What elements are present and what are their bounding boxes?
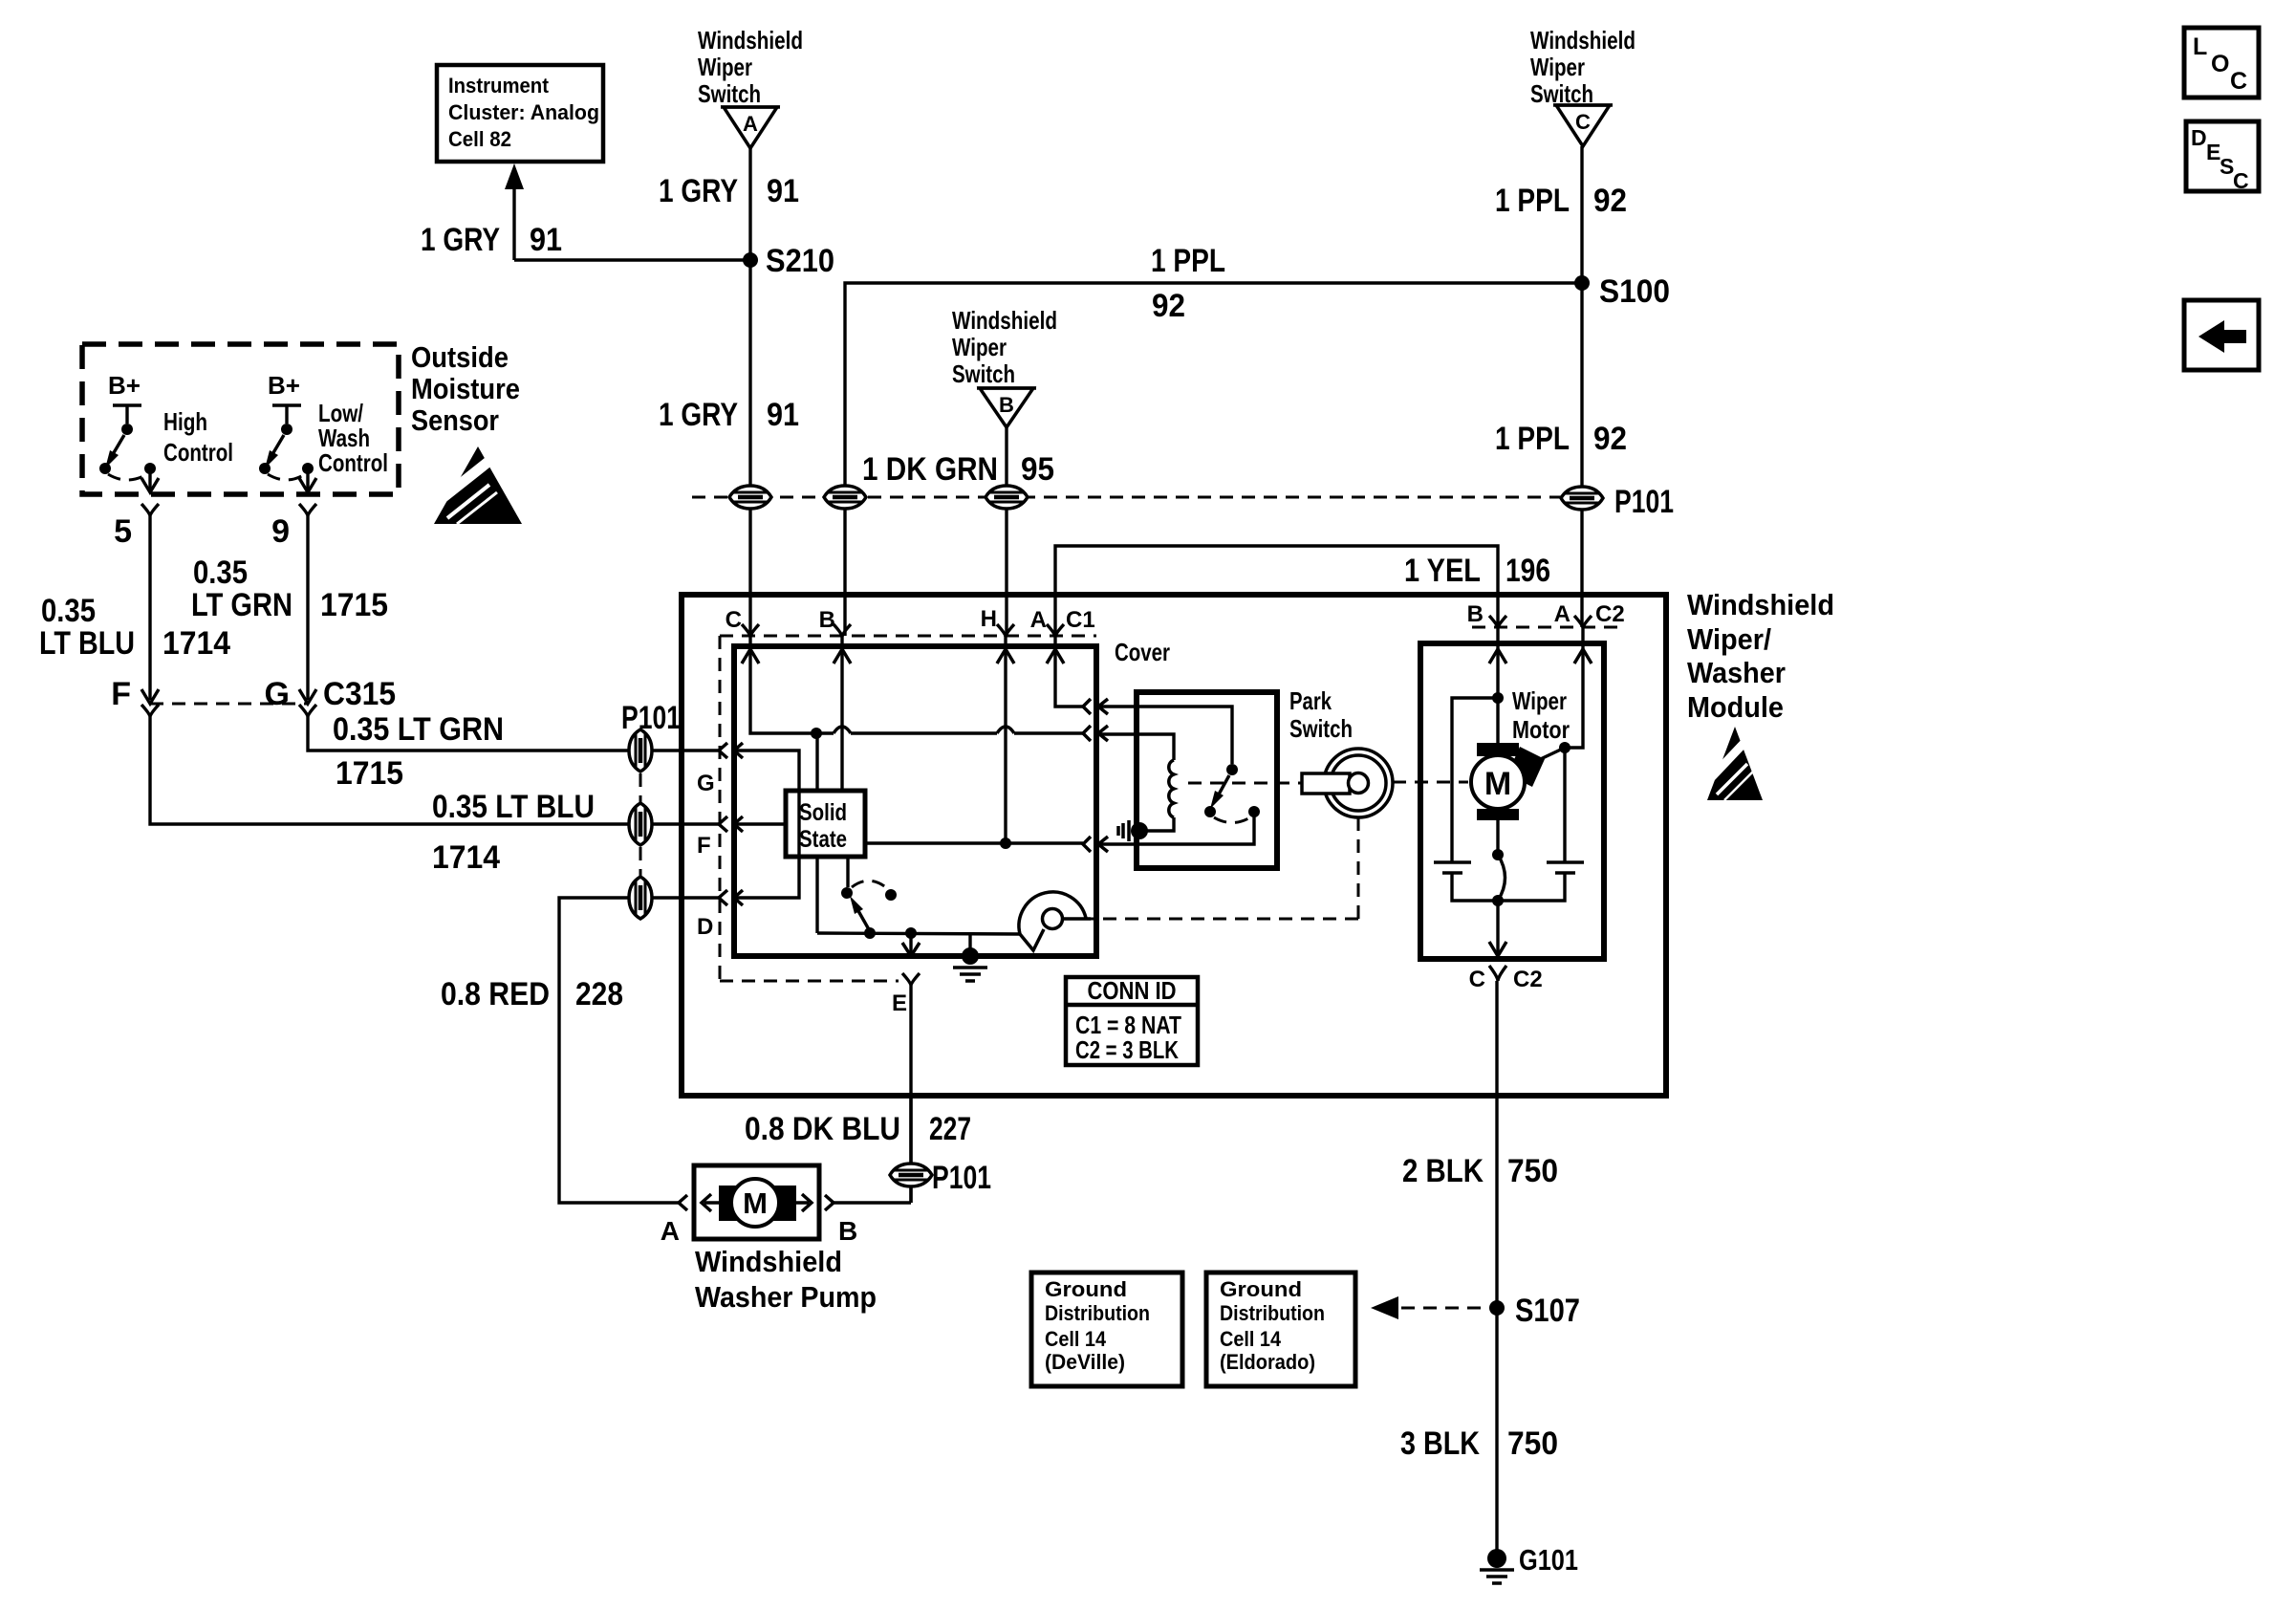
svg-text:B+: B+: [268, 371, 300, 400]
svg-text:LT GRN: LT GRN: [191, 587, 292, 623]
ground distribution cell 14 Eldorado box: [1206, 1273, 1355, 1386]
C2 terminal B: [1467, 601, 1506, 628]
inline connector P101 on wire B leg: [824, 486, 866, 509]
svg-text:C1: C1: [1066, 607, 1095, 633]
svg-text:Sensor: Sensor: [411, 403, 499, 437]
windshield wiper/washer module label: [1687, 588, 1834, 724]
svg-text:S107: S107: [1515, 1293, 1580, 1329]
dashed branch to ground distribution: [1371, 1296, 1484, 1319]
motor internal park contact arc: [1492, 820, 1505, 906]
svg-text:750: 750: [1507, 1153, 1558, 1189]
svg-text:1 GRY: 1 GRY: [659, 397, 738, 433]
svg-text:0.35 LT GRN: 0.35 LT GRN: [333, 711, 504, 748]
splice S210: [743, 243, 834, 279]
cover wire to relay coil: [1098, 734, 1174, 760]
motor armature wire B: [1492, 669, 1504, 743]
svg-text:Windshield: Windshield: [1530, 26, 1635, 54]
svg-text:F: F: [111, 676, 131, 712]
wire 1 GRY 91 S210 down to P101 and module terminal C: [659, 260, 799, 636]
svg-text:O: O: [2211, 51, 2229, 77]
card right edge terminal y767: [1083, 726, 1108, 741]
instrument cluster box: [437, 65, 603, 162]
windshield wiper/washer module box: [682, 595, 1666, 1096]
C1 terminal C: [726, 607, 759, 637]
svg-text:G: G: [265, 676, 290, 712]
motor right capacitor branch A: [1498, 669, 1584, 901]
svg-text:Ground: Ground: [1045, 1277, 1127, 1301]
svg-text:1 PPL: 1 PPL: [1151, 243, 1225, 279]
card entry arrow H: [997, 636, 1014, 669]
terminal E below card: [892, 973, 920, 1016]
svg-text:Windshield: Windshield: [695, 1245, 842, 1278]
wiper motor label: [1512, 686, 1570, 744]
pump terminal A: [661, 1195, 687, 1246]
park switch lever and knob: [1302, 749, 1393, 817]
svg-text:(Eldorado): (Eldorado): [1220, 1350, 1315, 1374]
card ground bus: [817, 933, 1021, 934]
svg-text:C: C: [2233, 168, 2249, 193]
inline connector P101 on LT GRN wire: [629, 729, 652, 772]
svg-text:95: 95: [1021, 451, 1054, 488]
svg-text:Cover: Cover: [1115, 638, 1170, 666]
wire 1 GRY 91 to instrument cluster: [421, 163, 562, 260]
svg-text:Solid: Solid: [799, 799, 847, 826]
cam park switch symbol: [1019, 892, 1091, 950]
dashed link coil to park switch: [1188, 782, 1302, 785]
windshield washer pump label: [695, 1245, 877, 1314]
svg-text:A: A: [743, 112, 758, 136]
wiper motor M symbol: [1471, 743, 1545, 820]
back arrow legend box: [2184, 300, 2259, 370]
svg-text:Switch: Switch: [952, 359, 1015, 388]
svg-text:LT BLU: LT BLU: [39, 625, 135, 662]
svg-text:A: A: [661, 1216, 680, 1246]
ESD symbol (moisture sensor): [429, 446, 522, 524]
connector C315 terminal F: [111, 676, 159, 717]
svg-text:B+: B+: [108, 371, 141, 400]
svg-text:L: L: [2193, 33, 2207, 60]
card trace from C with hops over B and H: [750, 669, 1083, 733]
svg-text:Distribution: Distribution: [1045, 1301, 1150, 1325]
card trace F to solid state: [734, 822, 786, 825]
off-page triangle A windshield wiper switch: [721, 107, 780, 148]
svg-text:91: 91: [767, 397, 799, 433]
svg-text:M: M: [1484, 766, 1511, 802]
svg-text:92: 92: [1593, 421, 1627, 457]
inline connector P101 on DK BLU wire: [890, 1164, 932, 1186]
svg-text:Wiper: Wiper: [952, 333, 1007, 361]
card right edge terminal y883: [1083, 837, 1108, 852]
card trace A exit right: [1055, 669, 1083, 707]
wire 0.35 LT BLU 1714 vertical to C315 F: [39, 516, 230, 700]
wire S210 to instrument branch: [514, 258, 750, 261]
solid state bottom stub to relay contact: [846, 857, 849, 887]
svg-text:B: B: [838, 1216, 857, 1246]
svg-text:C: C: [1575, 110, 1591, 134]
card terminal F: [697, 816, 743, 859]
svg-text:C: C: [2230, 68, 2247, 95]
svg-text:9: 9: [271, 513, 290, 550]
svg-text:Wiper: Wiper: [698, 53, 752, 81]
relay coil: [1169, 760, 1174, 817]
inline connector P101 on wire C (switch A leg): [729, 486, 771, 509]
card entry arrow C: [742, 636, 759, 669]
high control switch: [99, 407, 233, 480]
svg-text:Cell 82: Cell 82: [448, 127, 511, 151]
svg-text:C: C: [1469, 967, 1485, 992]
svg-text:1 PPL: 1 PPL: [1495, 183, 1570, 219]
motor entry arrow A: [1574, 628, 1592, 669]
connector C1 dashed row: [720, 635, 1096, 638]
svg-text:Windshield: Windshield: [1687, 588, 1834, 621]
svg-text:Switch: Switch: [1289, 714, 1353, 743]
washer pump internal arrows: [702, 1194, 812, 1211]
wire 0.35 LT GRN 1715 to P101 and module terminal G: [308, 711, 719, 792]
svg-text:C2: C2: [1595, 601, 1625, 627]
card trace B to solid state: [840, 669, 843, 791]
ground G101: [1480, 1543, 1578, 1583]
C1 terminal B: [819, 607, 851, 637]
svg-text:B: B: [1467, 601, 1484, 627]
connector C2 dashed row: [1472, 626, 1625, 629]
wire 2 BLK 750 to S107: [1402, 981, 1558, 1308]
svg-text:Wiper/: Wiper/: [1687, 622, 1771, 656]
inline connector P101 on LT BLU wire: [629, 803, 652, 845]
svg-text:Control: Control: [163, 438, 233, 467]
C2 terminal A: [1554, 601, 1625, 628]
svg-text:High: High: [163, 407, 207, 436]
svg-text:0.35: 0.35: [41, 593, 96, 629]
svg-text:Washer Pump: Washer Pump: [695, 1280, 877, 1314]
svg-text:D: D: [697, 914, 713, 940]
wire 1 PPL 92 S100 branch to module terminal B: [845, 243, 1582, 636]
card internal switch: [841, 881, 897, 939]
svg-text:1 YEL: 1 YEL: [1404, 553, 1481, 589]
svg-text:A: A: [1030, 607, 1047, 633]
svg-text:Cell 14: Cell 14: [1220, 1327, 1282, 1351]
svg-text:H: H: [981, 606, 997, 632]
card terminal D: [697, 890, 743, 940]
solid state top stub to C trace: [815, 733, 818, 791]
svg-text:Park: Park: [1289, 686, 1332, 715]
solid state output trace to right edge: [865, 841, 1083, 844]
connector plane P101 dashed line: [692, 496, 1568, 499]
svg-text:State: State: [799, 826, 847, 853]
windshield wiper switch B label: [952, 306, 1057, 388]
svg-text:5: 5: [114, 513, 132, 550]
sensor pin 9 wire exit: [271, 468, 316, 550]
card entry arrow A: [1047, 636, 1064, 669]
wire 0.8 DK BLU 227 module E to P101: [745, 1096, 971, 1203]
svg-text:91: 91: [530, 222, 562, 258]
svg-text:D: D: [2191, 125, 2207, 150]
svg-text:1715: 1715: [336, 755, 403, 792]
svg-text:228: 228: [575, 976, 623, 1012]
svg-text:B: B: [999, 393, 1014, 417]
card trace G to D loop: [734, 751, 799, 898]
svg-text:92: 92: [1593, 183, 1627, 219]
svg-text:Moisture: Moisture: [411, 372, 520, 405]
wire 1 GRY 91 switch A to S210: [659, 148, 799, 260]
inline connector P101 on wire H leg: [986, 486, 1028, 509]
inline connector P101 on wire 1 PPL 92: [1561, 487, 1603, 510]
card dashed boundary bottom: [720, 980, 899, 983]
windshield wiper switch C label: [1530, 26, 1635, 108]
svg-text:C2: C2: [1513, 967, 1543, 992]
svg-text:Windshield: Windshield: [952, 306, 1057, 335]
junction dot on C trace: [811, 728, 822, 739]
svg-text:0.8 DK BLU: 0.8 DK BLU: [745, 1111, 900, 1147]
svg-text:227: 227: [929, 1111, 971, 1147]
svg-text:750: 750: [1507, 1425, 1558, 1462]
wiper motor box: [1420, 643, 1604, 959]
motor left capacitor branch: [1434, 698, 1498, 901]
svg-text:Outside: Outside: [411, 340, 509, 374]
ESD symbol (module): [1703, 727, 1763, 800]
bus junction to E: [905, 927, 917, 939]
card entry arrow B: [834, 636, 851, 669]
svg-text:2 BLK: 2 BLK: [1402, 1153, 1484, 1189]
svg-text:0.35 LT BLU: 0.35 LT BLU: [432, 789, 595, 825]
pump terminal B: [825, 1195, 857, 1246]
svg-text:G101: G101: [1519, 1543, 1578, 1577]
splice S100: [1574, 273, 1670, 310]
svg-text:S210: S210: [766, 243, 834, 279]
svg-text:C2 = 3 BLK: C2 = 3 BLK: [1075, 1035, 1179, 1064]
svg-text:M: M: [743, 1186, 768, 1220]
B+ terminal low/wash control: [268, 371, 301, 424]
svg-text:Windshield: Windshield: [698, 26, 803, 54]
svg-text:92: 92: [1152, 288, 1185, 324]
B+ terminal high control: [108, 371, 141, 424]
svg-text:Module: Module: [1687, 690, 1784, 724]
low/wash control switch: [259, 399, 388, 480]
wire 0.35 LT GRN 1715 vertical to C315 G: [191, 516, 388, 700]
wire 1 YEL 196 jumper C1-A to C2-B: [1055, 546, 1550, 636]
svg-text:Switch: Switch: [698, 79, 761, 108]
connector C315 dashed line: [150, 703, 308, 706]
svg-text:Washer: Washer: [1687, 656, 1786, 689]
card exit arrow E: [902, 933, 920, 956]
outside moisture sensor dashed box: [82, 344, 399, 494]
svg-text:1 DK GRN: 1 DK GRN: [862, 451, 998, 488]
cover wire from relay contact (bottom): [1098, 812, 1254, 844]
cover box: [1137, 692, 1277, 868]
svg-text:P101: P101: [621, 700, 681, 736]
svg-text:1715: 1715: [320, 587, 388, 623]
svg-text:196: 196: [1505, 553, 1550, 589]
wire 0.8 RED 228 washer pump to P101 and module terminal D: [441, 898, 719, 1203]
wiper card box: [734, 646, 1096, 956]
motor entry arrow B: [1489, 628, 1506, 669]
svg-text:0.35: 0.35: [193, 555, 248, 591]
windshield wiper switch A label: [698, 26, 803, 108]
card terminal G: [697, 743, 743, 796]
LOC legend box: [2184, 28, 2259, 98]
motor brush wire to A branch: [1530, 748, 1565, 764]
splice S107: [1489, 1293, 1580, 1329]
card internal ground: [953, 934, 987, 981]
svg-text:Distribution: Distribution: [1220, 1301, 1325, 1325]
svg-text:B: B: [819, 607, 835, 633]
svg-text:S100: S100: [1599, 273, 1670, 310]
card trace H to solid state output: [1000, 669, 1011, 849]
P101 dashed connector plane left: [639, 773, 642, 876]
wire 0.35 LT BLU 1714 to P101 and module terminal F: [150, 717, 719, 876]
inline connector P101 on RED wire: [629, 877, 652, 919]
relay switch in cover: [1204, 764, 1260, 823]
svg-text:E: E: [892, 990, 907, 1016]
ground distribution cell 14 DeVille box: [1031, 1273, 1182, 1386]
svg-text:G: G: [697, 771, 715, 796]
motor exit arrow C: [1489, 901, 1506, 956]
wire E to washer pump B leg: [909, 986, 912, 1203]
windshield washer pump box: [694, 1165, 819, 1239]
svg-text:91: 91: [767, 173, 799, 209]
off-page triangle C windshield wiper switch: [1553, 105, 1613, 146]
svg-text:F: F: [697, 833, 711, 859]
connector C315 terminal G: [265, 676, 396, 717]
wire 1 PPL 92 switch C to S100: [1495, 146, 1627, 283]
svg-text:Cluster: Analog: Cluster: Analog: [448, 100, 599, 124]
off-page triangle B windshield wiper switch: [977, 388, 1036, 427]
DESC legend box: [2186, 121, 2259, 193]
svg-text:(DeVille): (DeVille): [1045, 1350, 1125, 1374]
wire washer pump B leg: [834, 1201, 911, 1204]
svg-text:Instrument: Instrument: [448, 74, 550, 98]
solid state bottom stub to bus: [815, 857, 818, 933]
sensor pin 5 wire exit: [114, 468, 159, 550]
cover wire to park relay contact (top): [1098, 707, 1232, 764]
wire 3 BLK 750 to G101: [1400, 1308, 1558, 1554]
svg-text:1714: 1714: [162, 625, 230, 662]
dashed link park switch to wiper motor: [1393, 781, 1468, 784]
card dashed boundary left: [719, 636, 722, 981]
svg-text:0.8 RED: 0.8 RED: [441, 976, 550, 1012]
dashed link park switch to cam: [1091, 817, 1358, 919]
svg-text:CONN ID: CONN ID: [1088, 976, 1177, 1005]
coil ground to cover case: [1118, 817, 1174, 841]
wire 1 PPL 92 S100 down to P101 and module: [1495, 283, 1627, 627]
outside moisture sensor label: [411, 340, 520, 437]
svg-text:Ground: Ground: [1220, 1277, 1302, 1301]
washer pump motor: [719, 1179, 796, 1227]
svg-text:Wiper: Wiper: [1530, 53, 1585, 81]
C1 terminal H: [981, 606, 1014, 637]
svg-text:1 GRY: 1 GRY: [421, 222, 500, 258]
svg-text:P101: P101: [1614, 484, 1674, 520]
svg-text:1714: 1714: [432, 839, 500, 876]
park switch label: [1289, 686, 1353, 743]
C1 terminal A: [1030, 607, 1095, 637]
svg-text:Control: Control: [318, 448, 388, 477]
solid state box: [786, 791, 865, 857]
svg-text:3 BLK: 3 BLK: [1400, 1425, 1480, 1462]
svg-text:A: A: [1554, 601, 1570, 627]
svg-text:C315: C315: [323, 676, 396, 712]
svg-text:1 PPL: 1 PPL: [1495, 421, 1570, 457]
svg-text:Wiper: Wiper: [1512, 686, 1567, 715]
svg-text:Motor: Motor: [1512, 715, 1570, 744]
CONN ID table: [1066, 976, 1198, 1065]
svg-text:Cell 14: Cell 14: [1045, 1327, 1107, 1351]
svg-text:1 GRY: 1 GRY: [659, 173, 738, 209]
svg-text:P101: P101: [932, 1160, 991, 1196]
card right edge terminal y739: [1083, 699, 1108, 714]
svg-text:C: C: [726, 607, 742, 633]
wire 1 DK GRN 95 switch B to module terminal H: [862, 427, 1054, 636]
C2 terminal C below motor: [1469, 966, 1543, 992]
